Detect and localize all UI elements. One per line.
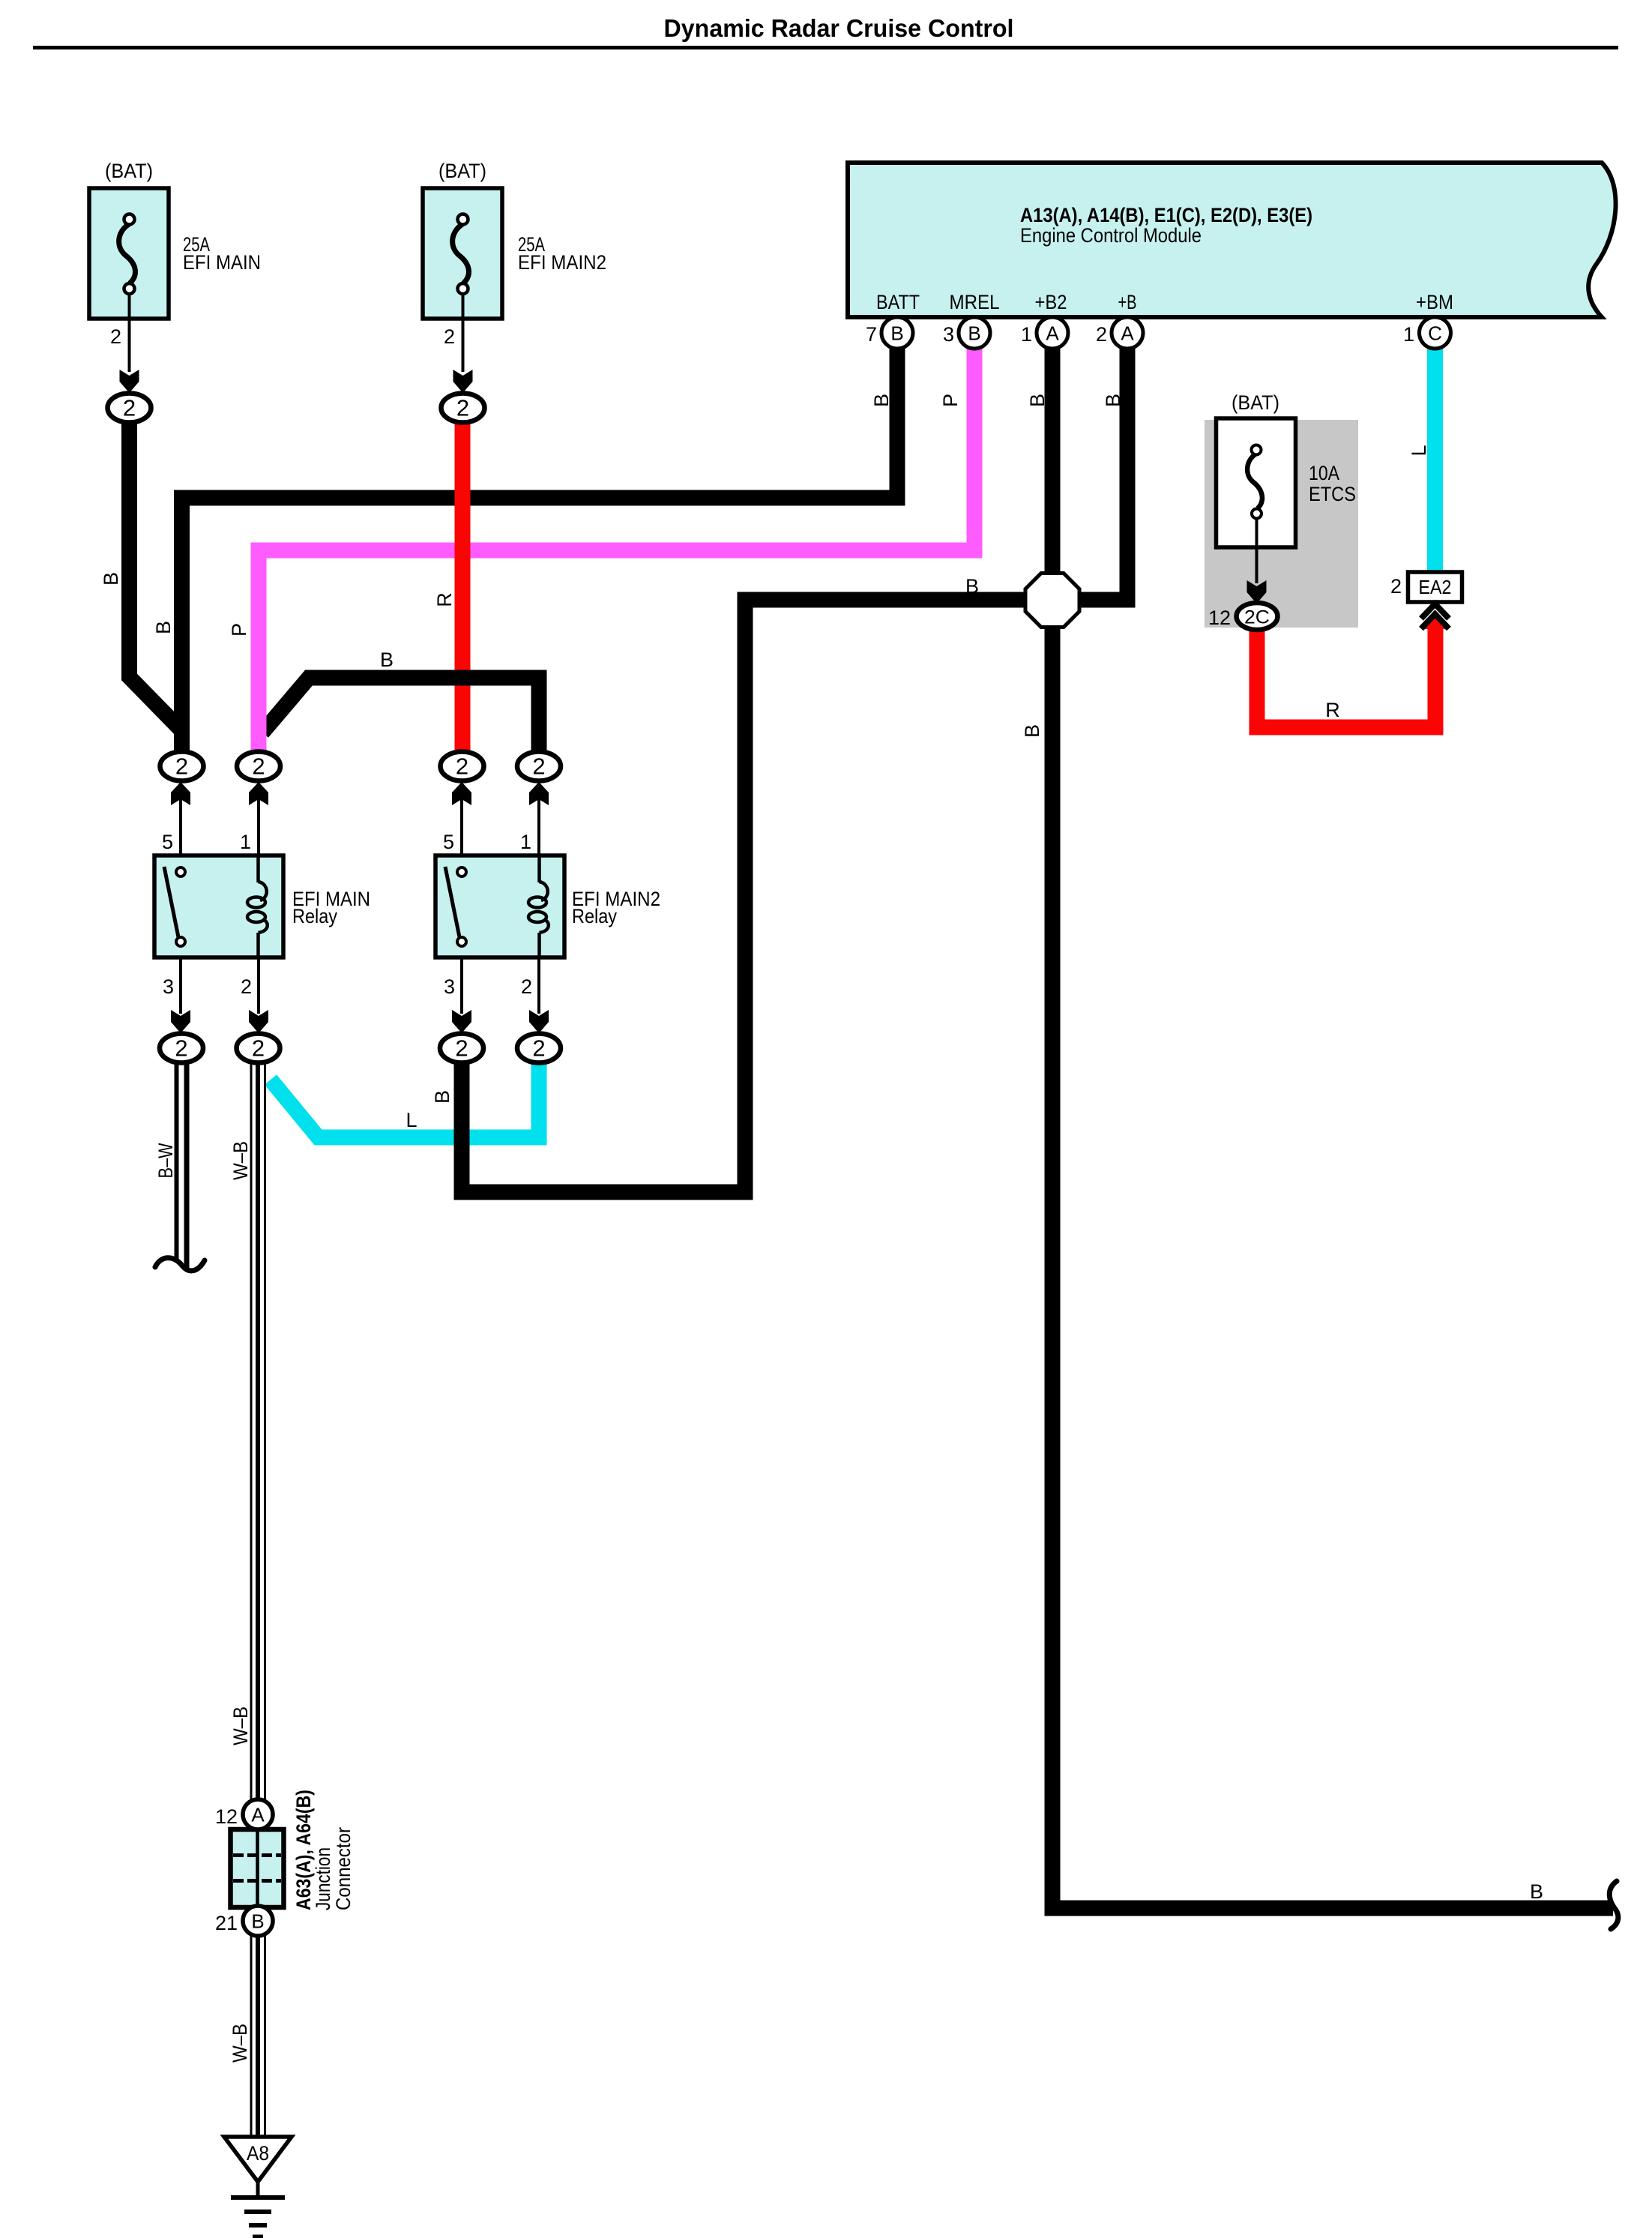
svg-text:2: 2: [521, 975, 532, 998]
connector 2 above EFI MAIN relay pin 5: [160, 752, 204, 781]
svg-text:2: 2: [455, 1035, 468, 1062]
svg-text:R: R: [1325, 699, 1340, 721]
arrow into connector below EFI MAIN2 relay pin 2: [529, 1010, 549, 1033]
wire B: EFI MAIN2 relay pin 3 down, right, up to +B/+B2 node: [462, 333, 1127, 1192]
svg-text:1: 1: [1403, 323, 1414, 346]
relay EFI MAIN2 pin 2 lead: [521, 957, 539, 1014]
wire label B (below node wire): [1021, 724, 1043, 738]
arrow into EFI MAIN relay pin 5 connector: [171, 782, 190, 805]
svg-text:2: 2: [456, 395, 469, 421]
svg-text:W–B: W–B: [229, 1706, 252, 1745]
arrow into connector below EFI MAIN relay pin 3: [171, 1010, 190, 1033]
svg-text:W–B: W–B: [229, 1141, 252, 1180]
title underline rule: [33, 46, 1618, 49]
svg-text:10A: 10A: [1309, 462, 1339, 484]
svg-text:5: 5: [162, 831, 173, 853]
svg-text:B: B: [1530, 1880, 1543, 1903]
wire R: fuse EFI MAIN2 output down to EFI MAIN2 relay pin 5 connector: [455, 408, 471, 766]
svg-text:3: 3: [444, 975, 455, 998]
connector 2 below EFI MAIN relay pin 3: [160, 1034, 203, 1063]
relay EFI MAIN pin 1 lead: [240, 799, 259, 855]
svg-text:(BAT): (BAT): [1232, 391, 1279, 414]
svg-text:B: B: [965, 575, 979, 598]
svg-text:MREL: MREL: [950, 291, 1000, 313]
svg-text:Relay: Relay: [572, 905, 617, 927]
svg-text:2: 2: [175, 753, 188, 780]
junction connector pin 12 circle A: [215, 1799, 273, 1829]
relay EFI MAIN pin 5 lead: [162, 799, 181, 855]
svg-text:2: 2: [1096, 323, 1107, 346]
connector 2 below fuse EFI MAIN2: [441, 394, 485, 423]
fuse EFI MAIN pin 2 label: [110, 325, 121, 348]
svg-text:2C: 2C: [1244, 607, 1270, 628]
svg-text:A: A: [1121, 322, 1134, 345]
wire label W-B (mid wire): [229, 1706, 252, 1745]
svg-text:B: B: [431, 1090, 453, 1104]
connector 2 below EFI MAIN2 relay pin 3: [440, 1034, 483, 1063]
svg-text:B: B: [890, 322, 903, 345]
connector 2 below fuse EFI MAIN: [108, 394, 151, 423]
svg-text:P: P: [939, 394, 962, 407]
svg-text:A: A: [1046, 322, 1059, 345]
arrow into fuse EFI MAIN2 output connector: [453, 370, 473, 393]
svg-text:7: 7: [866, 323, 877, 346]
svg-text:B: B: [380, 649, 394, 671]
svg-text:R: R: [433, 592, 456, 607]
svg-text:(BAT): (BAT): [438, 160, 486, 182]
svg-text:+B2: +B2: [1035, 291, 1067, 313]
ECM pin 1 +B2 connector A: [1021, 317, 1068, 349]
relay EFI MAIN2 pin 1 lead: [520, 799, 539, 855]
svg-text:2: 2: [252, 1035, 265, 1062]
svg-text:B: B: [968, 322, 980, 345]
svg-text:B: B: [1021, 724, 1043, 738]
wire B: fuse EFI MAIN output down to relay junction: [130, 408, 181, 729]
wire label W-B (below junction connector): [229, 2024, 251, 2063]
connector 2 below EFI MAIN relay pin 2: [237, 1034, 280, 1063]
wire label B (under ECM +B pin): [1102, 394, 1124, 407]
wire label L (relay 2-2 link wire): [406, 1109, 417, 1131]
arrow into connector below EFI MAIN2 relay pin 3: [452, 1010, 471, 1033]
svg-text:ETCS: ETCS: [1309, 483, 1356, 505]
svg-text:A8: A8: [247, 2142, 269, 2165]
arrow into ETCS fuse output connector: [1247, 580, 1267, 604]
wire label B (bottom right exit wire): [1530, 1880, 1543, 1903]
svg-text:Relay: Relay: [292, 905, 337, 927]
fuse EFI MAIN (25A): [89, 160, 261, 372]
svg-text:2: 2: [532, 1035, 545, 1062]
wire label P (under ECM MREL pin): [939, 394, 962, 407]
arrow into EFI MAIN relay pin 1 connector: [249, 782, 268, 805]
wire P: pink segment over branch joint: [251, 703, 267, 752]
svg-text:5: 5: [443, 831, 454, 853]
wire label B-W: [154, 1143, 177, 1178]
connector 2 below EFI MAIN2 relay pin 2: [517, 1034, 561, 1063]
relay EFI MAIN pin 2 lead: [241, 957, 259, 1014]
svg-text:Junction: Junction: [312, 1847, 334, 1910]
svg-text:A13(A), A14(B), E1(C), E2(D),: A13(A), A14(B), E1(C), E2(D), E3(E): [1020, 204, 1312, 226]
wire label B (EFI MAIN2 relay pin 3 wire): [431, 1090, 453, 1104]
wire L: ECM +BM pin down to EA2: [1427, 333, 1443, 572]
ECM pin 7 BATT connector B: [866, 317, 913, 349]
relay EFI MAIN2: [435, 855, 660, 957]
wire B: ECM +B2 pin down through junction node, to bottom right edge: [1052, 333, 1613, 1908]
svg-text:W–B: W–B: [229, 2024, 251, 2063]
wire P: ECM MREL pin down, left, down to EFI MAIN relay pin 1 connector: [259, 333, 974, 766]
svg-text:2: 2: [252, 753, 265, 780]
wire label B (under ECM +B2 pin): [1026, 394, 1049, 407]
wire label R (EFI MAIN2 fuse wire): [433, 592, 456, 607]
wire label L (under ECM +BM pin): [1408, 445, 1430, 456]
svg-text:2: 2: [456, 753, 468, 780]
wire label B (BATT wire): [152, 621, 175, 634]
wire B: ECM BATT pin down, left, down to EFI MAIN relay pin 5 connector: [182, 333, 898, 766]
svg-text:2: 2: [1390, 575, 1402, 598]
svg-text:12: 12: [1208, 607, 1231, 629]
svg-text:EFI MAIN2: EFI MAIN2: [518, 251, 606, 274]
svg-text:P: P: [228, 623, 250, 637]
svg-text:2: 2: [532, 753, 545, 780]
wire B-W: EFI MAIN relay pin 3 down to break: [177, 1062, 187, 1268]
svg-text:BATT: BATT: [876, 291, 920, 313]
wire B: MREL branch to EFI MAIN2 relay pin 1 connector: [262, 678, 539, 766]
svg-text:B: B: [251, 1910, 264, 1933]
wire break squiggle at right edge: [1609, 1881, 1618, 1929]
svg-text:2: 2: [110, 325, 121, 348]
connector EA2 pin 2: [1390, 572, 1462, 602]
double chevron arrows below EA2: [1421, 604, 1449, 629]
svg-text:1: 1: [1021, 323, 1032, 346]
svg-text:2: 2: [241, 975, 252, 998]
title: Dynamic Radar Cruise Control: [664, 14, 1014, 42]
svg-text:B: B: [870, 394, 893, 407]
wire label B (under ECM BATT pin): [870, 394, 893, 407]
wire L: EFI MAIN relay pin 2 to EFI MAIN2 relay pin 2: [271, 1062, 539, 1137]
svg-text:3: 3: [163, 975, 174, 998]
connector 2C pin 12 below ETCS fuse: [1208, 603, 1278, 630]
wire label B (horizontal B wire into node): [965, 575, 979, 598]
wire label B (fuse EFI MAIN wire): [100, 572, 122, 586]
relay EFI MAIN: [154, 855, 370, 957]
relay EFI MAIN pin 3 lead: [163, 957, 181, 1014]
svg-text:EFI MAIN: EFI MAIN: [183, 251, 261, 274]
arrow into EFI MAIN2 relay pin 1 connector: [529, 782, 549, 805]
arrow into fuse EFI MAIN output connector: [120, 370, 139, 393]
svg-text:Engine Control Module: Engine Control Module: [1020, 224, 1202, 247]
svg-text:Dynamic Radar Cruise Control: Dynamic Radar Cruise Control: [664, 14, 1014, 42]
svg-text:12: 12: [215, 1805, 238, 1828]
svg-text:L: L: [406, 1109, 417, 1131]
junction node octagon: [1025, 574, 1079, 628]
ground A8: [224, 2137, 292, 2237]
wire R: ETCS fuse 2C connector down, right, up to EA2 arrows: [1257, 613, 1449, 727]
svg-text:1: 1: [520, 831, 531, 853]
wire label P (MREL wire): [228, 623, 250, 637]
svg-text:B: B: [1102, 394, 1124, 407]
wire W-B: junction connector B down to ground A8: [251, 1933, 265, 2137]
wire break squiggle at B-W end: [155, 1258, 205, 1271]
ECM pin 3 MREL connector B: [943, 317, 990, 349]
connector 2 above EFI MAIN2 relay pin 1: [517, 752, 561, 781]
connector 2 above EFI MAIN relay pin 1: [237, 752, 280, 781]
svg-text:+B: +B: [1118, 291, 1137, 313]
svg-text:2: 2: [123, 395, 136, 421]
svg-text:C: C: [1428, 322, 1442, 345]
svg-text:3: 3: [943, 323, 954, 346]
connector 2 above EFI MAIN2 relay pin 5: [441, 752, 484, 781]
svg-text:L: L: [1408, 445, 1430, 456]
wire W-B: EFI MAIN relay pin 2 down to junction connector A: [251, 1062, 265, 1803]
wire label W-B (above junction connector): [229, 1141, 252, 1180]
svg-text:B: B: [1026, 394, 1049, 407]
svg-text:21: 21: [215, 1912, 238, 1934]
svg-text:B–W: B–W: [154, 1143, 177, 1178]
ECM pin 1 +BM connector C: [1403, 317, 1451, 349]
svg-text:B: B: [152, 621, 175, 634]
arrow into connector below EFI MAIN relay pin 2: [249, 1010, 268, 1033]
ECM pin 2 +B connector A: [1096, 317, 1143, 349]
svg-text:1: 1: [240, 831, 251, 853]
junction connector A63(A), A64(B): [231, 1790, 355, 1910]
fuse EFI MAIN2 (25A): [423, 160, 606, 372]
wire label R (ETCS to EA2 wire): [1325, 699, 1340, 721]
svg-text:Connector: Connector: [332, 1827, 355, 1910]
svg-text:(BAT): (BAT): [105, 160, 153, 182]
ECM block A13(A), A14(B), E1(C), E2(D), E3(E) Engine Control Module: [848, 163, 1616, 317]
relay EFI MAIN2 pin 3 lead: [444, 957, 462, 1014]
fuse ETCS (10A) in gray holder: [1205, 391, 1358, 628]
svg-text:A: A: [251, 1804, 265, 1826]
svg-text:B: B: [100, 572, 122, 586]
junction connector pin 21 circle B: [215, 1906, 273, 1936]
wire label B (MREL branch wire): [380, 649, 394, 671]
relay EFI MAIN2 pin 5 lead: [443, 799, 462, 855]
fuse EFI MAIN2 pin 2 label: [444, 325, 455, 348]
svg-text:2: 2: [175, 1035, 187, 1062]
arrow into EFI MAIN2 relay pin 5 connector: [452, 782, 471, 805]
svg-text:2: 2: [444, 325, 455, 348]
svg-text:EA2: EA2: [1419, 576, 1452, 598]
svg-text:+BM: +BM: [1416, 291, 1453, 313]
